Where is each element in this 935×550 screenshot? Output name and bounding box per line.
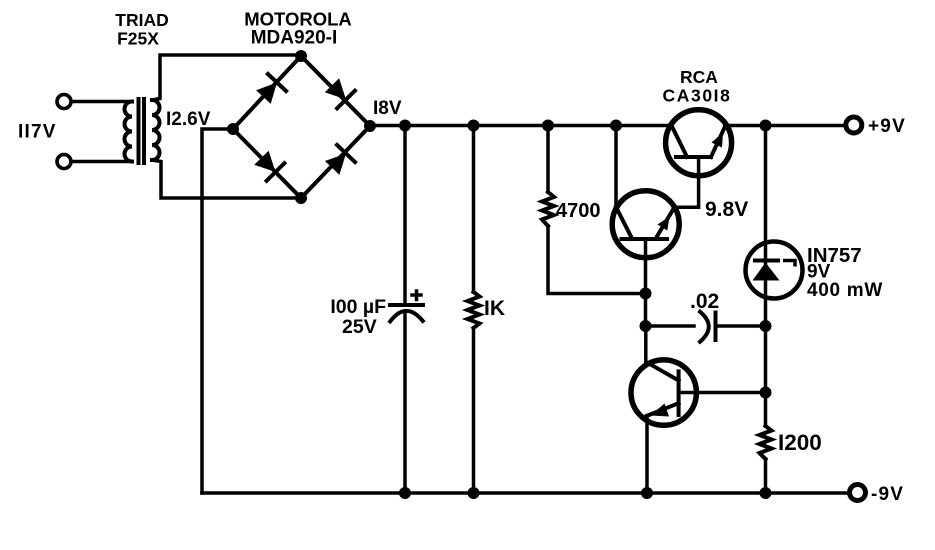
node bottom/Q3 — [641, 487, 653, 499]
wire secondary bottom to bridge bottom — [152, 160, 301, 198]
svg-text:MDA920-I: MDA920-I — [251, 28, 338, 49]
wire Q1 base to Q2 emitter — [674, 157, 699, 207]
wire .02 left — [646, 324, 695, 328]
svg-text:RCA: RCA — [680, 67, 718, 87]
node rail/Q2 — [610, 120, 622, 132]
transformer T1 secondary winding — [152, 100, 160, 160]
wire Q3 emitter down — [645, 416, 649, 493]
node rail/R1 — [468, 120, 480, 132]
svg-text:-9V: -9V — [871, 484, 904, 505]
svg-text:I00 µF: I00 µF — [330, 296, 386, 318]
wire bridge left to minus bus — [202, 129, 233, 493]
svg-text:CA30I8: CA30I8 — [663, 86, 732, 106]
wire Q2 base lead down — [644, 239, 648, 326]
zener D5 bent tab — [783, 261, 795, 267]
node R2/Q2 base junction — [640, 288, 652, 300]
wire top rail left segment — [370, 124, 672, 128]
resistor R2 4700 zigzag — [542, 192, 554, 226]
wire .02 right — [716, 324, 767, 328]
svg-text:400 mW: 400 mW — [807, 280, 883, 301]
svg-text:F25X: F25X — [117, 29, 159, 49]
node rail/zener — [760, 120, 772, 132]
svg-text:4700: 4700 — [556, 200, 601, 222]
wire bottom rail — [202, 491, 850, 495]
transistor Q3 (error amp) — [631, 360, 696, 425]
bridge rectifier leg L-B — [233, 129, 301, 198]
zener D5 cathode bar — [753, 259, 780, 263]
wire resistor R2 to Q2 base node — [548, 226, 646, 294]
node bottom/R3 — [760, 487, 772, 499]
-9V terminal — [850, 485, 866, 501]
node bottom/C1 — [399, 487, 411, 499]
node bottom/R1 — [468, 487, 480, 499]
node bridge top — [295, 50, 307, 62]
wire Q2 collector from rail — [614, 126, 618, 208]
svg-text:I200: I200 — [778, 430, 822, 455]
117V input terminal bottom — [57, 155, 71, 169]
wire primary top lead — [72, 100, 133, 104]
wire R3 lower — [764, 459, 768, 493]
wire capacitor C1 branch upper — [403, 126, 407, 306]
capacitor C1 top plate — [388, 303, 425, 307]
bridge rectifier leg L-T — [233, 56, 301, 129]
wire capacitor C1 branch lower — [403, 312, 407, 494]
wire resistor R2 branch upper — [546, 126, 550, 193]
diode D2 upper-right — [325, 78, 346, 99]
diode D1 upper-left — [256, 83, 277, 104]
resistor R3 1200 zigzag — [760, 426, 772, 459]
svg-text:9.8V: 9.8V — [705, 198, 748, 221]
svg-text:IK: IK — [484, 297, 505, 320]
transformer T1 core — [137, 99, 141, 163]
node bridge left — [227, 123, 239, 135]
117V input terminal top — [57, 95, 71, 109]
zener D5 triangle — [753, 263, 780, 281]
node rail/C1 — [399, 120, 411, 132]
+9V terminal — [846, 117, 862, 133]
wire primary bottom lead — [72, 160, 133, 164]
capacitor C2 .02 curved plate — [699, 311, 709, 344]
svg-text:II7V: II7V — [18, 122, 57, 143]
svg-text:I8V: I8V — [373, 98, 402, 119]
node Q3 base/1200 junction — [760, 387, 772, 399]
wire zener branch vertical — [764, 126, 768, 427]
svg-text:.02: .02 — [690, 290, 719, 313]
node bridge bottom — [295, 192, 307, 204]
svg-text:25V: 25V — [342, 316, 377, 338]
svg-text:MOTOROLA: MOTOROLA — [244, 9, 352, 30]
wire secondary top to bridge top — [152, 55, 301, 100]
wire top rail right segment — [725, 124, 846, 128]
svg-text:+9V: +9V — [868, 116, 906, 137]
capacitor C1 plus sign — [412, 291, 421, 300]
capacitor C2 straight plate — [714, 311, 718, 343]
wire resistor R1 branch upper — [472, 126, 476, 293]
svg-text:I2.6V: I2.6V — [166, 109, 211, 130]
resistor R1 1K zigzag — [468, 292, 480, 328]
wire Q3 base lead right — [679, 391, 766, 395]
zener diode D5 1N757 circle — [746, 242, 803, 299]
transistor Q2 (CA3018 driver) — [612, 191, 679, 258]
wire Q3 collector up — [644, 326, 648, 362]
transistor Q1 (RCA CA3018 pass) — [666, 110, 732, 176]
capacitor C1 curved plate — [389, 311, 424, 323]
node rail/R2 — [542, 120, 554, 132]
node zener/.02 junction — [760, 320, 772, 332]
diode D4 lower-right — [325, 154, 346, 175]
transformer T1 primary winding — [125, 102, 133, 162]
node bridge right — [364, 120, 376, 132]
bridge rectifier leg T-R — [301, 56, 370, 126]
node .02 left junction — [640, 320, 652, 332]
bridge rectifier leg B-R — [301, 126, 370, 198]
svg-text:TRIAD: TRIAD — [115, 10, 168, 30]
wire resistor R1 branch lower — [472, 328, 476, 493]
diode D3 lower-left — [254, 151, 275, 172]
